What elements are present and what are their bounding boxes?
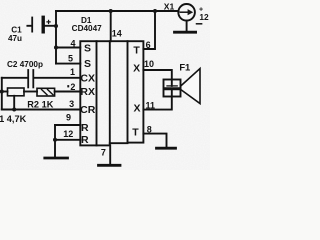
svg-text:47u: 47u [8, 34, 22, 43]
svg-text:R: R [81, 122, 89, 134]
svg-text:C2 4700p: C2 4700p [7, 60, 43, 69]
svg-text:T: T [133, 45, 140, 57]
svg-text:10: 10 [144, 59, 154, 69]
svg-text:R1 4,7K: R1 4,7K [0, 114, 27, 124]
svg-text:3: 3 [69, 99, 74, 109]
svg-text:S: S [84, 42, 91, 54]
svg-text:4: 4 [70, 38, 75, 48]
svg-text:T: T [132, 126, 139, 138]
svg-text:7: 7 [101, 147, 106, 157]
svg-text:R: R [81, 134, 89, 146]
svg-text:12: 12 [199, 12, 209, 22]
svg-text:5: 5 [68, 54, 73, 64]
svg-text:2: 2 [70, 82, 75, 92]
svg-text:X: X [133, 102, 140, 114]
svg-text:1: 1 [70, 67, 75, 77]
svg-text:CR: CR [80, 104, 96, 116]
svg-text:14: 14 [112, 29, 122, 39]
svg-text:11: 11 [146, 101, 156, 111]
svg-text:X1: X1 [164, 1, 175, 11]
svg-text:X: X [133, 62, 140, 74]
svg-text:8: 8 [147, 124, 152, 134]
svg-text:CD4047: CD4047 [72, 24, 102, 33]
svg-text:6: 6 [146, 40, 151, 50]
svg-text:9: 9 [66, 113, 71, 123]
svg-text:12: 12 [63, 129, 73, 139]
svg-text:R2 1K: R2 1K [27, 99, 53, 109]
svg-text:F1: F1 [179, 62, 190, 73]
svg-text:CX: CX [80, 73, 95, 85]
svg-text:RX: RX [80, 86, 95, 98]
svg-text:S: S [84, 58, 91, 70]
